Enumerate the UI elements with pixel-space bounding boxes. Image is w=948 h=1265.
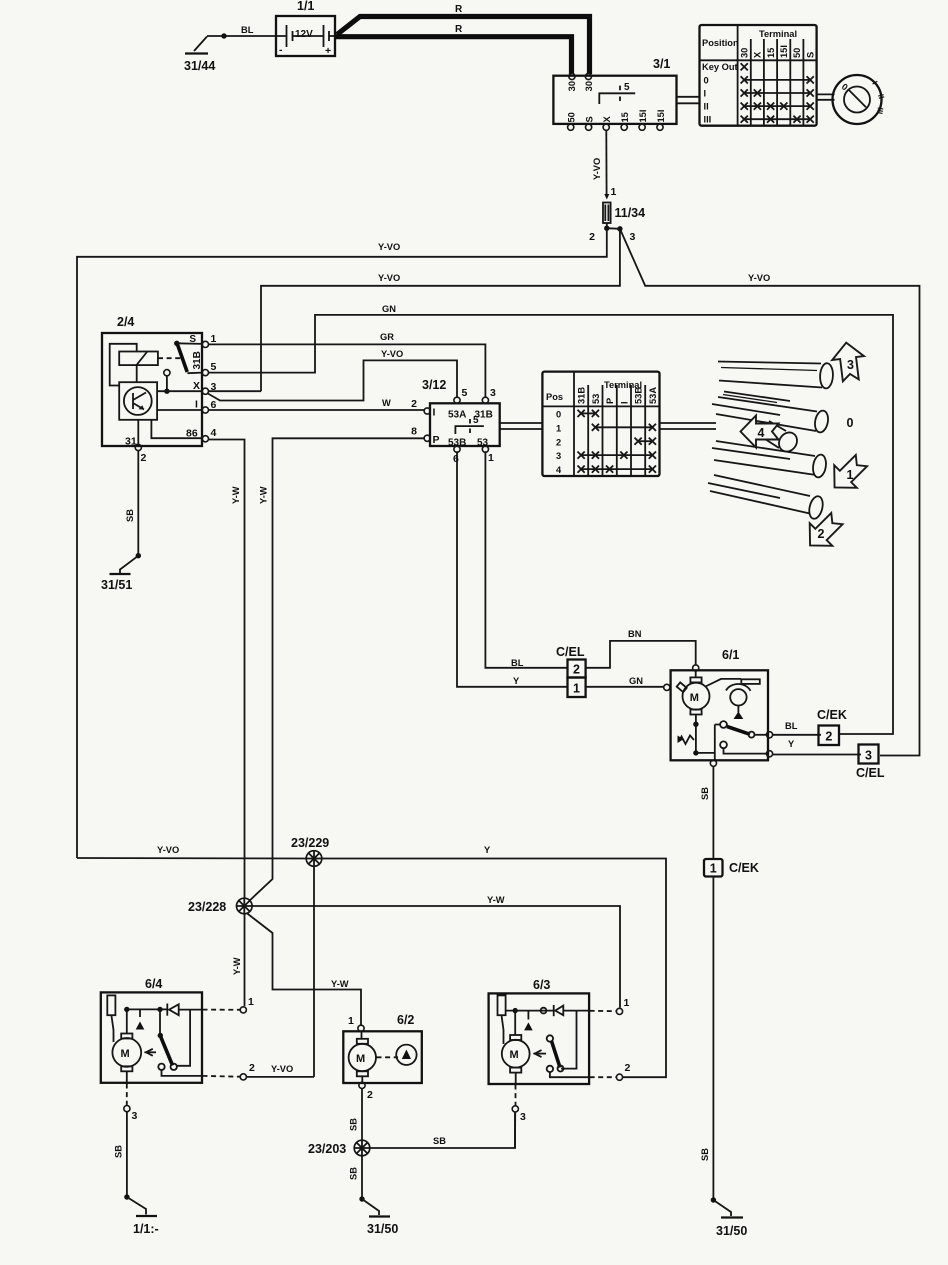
svg-text:4: 4	[211, 427, 217, 439]
svg-text:2/4: 2/4	[117, 315, 134, 329]
svg-text:1: 1	[348, 1015, 354, 1027]
svg-text:3: 3	[520, 1111, 526, 1123]
svg-text:2: 2	[589, 231, 595, 243]
svg-text:31/44: 31/44	[184, 59, 215, 73]
svg-text:Y-W: Y-W	[331, 979, 349, 989]
svg-text:2: 2	[249, 1062, 255, 1074]
svg-text:3/12: 3/12	[422, 378, 446, 392]
svg-text:X: X	[193, 380, 200, 392]
svg-text:C/EL: C/EL	[856, 766, 885, 780]
svg-text:3/1: 3/1	[653, 57, 670, 71]
svg-text:1: 1	[211, 333, 217, 345]
svg-text:Y-W: Y-W	[259, 486, 269, 504]
svg-text:Y: Y	[513, 676, 520, 686]
svg-text:BL: BL	[785, 721, 798, 731]
svg-text:M: M	[510, 1049, 519, 1061]
svg-text:6/4: 6/4	[145, 977, 162, 991]
svg-text:1: 1	[556, 423, 561, 433]
svg-text:II: II	[704, 102, 709, 112]
svg-text:1: 1	[248, 996, 254, 1008]
svg-text:1: 1	[573, 682, 580, 696]
svg-text:Y-VO: Y-VO	[157, 845, 179, 855]
svg-text:Y: Y	[788, 739, 795, 749]
svg-text:SB: SB	[433, 1136, 446, 1146]
svg-text:3: 3	[490, 387, 496, 399]
svg-text:SB: SB	[700, 787, 710, 800]
svg-text:4: 4	[556, 465, 562, 475]
svg-text:Y-VO: Y-VO	[592, 158, 602, 180]
svg-text:GN: GN	[382, 304, 396, 314]
svg-text:5: 5	[624, 82, 630, 93]
svg-text:P: P	[605, 398, 615, 404]
svg-text:BN: BN	[628, 629, 642, 639]
svg-text:2: 2	[141, 452, 147, 464]
svg-text:Y: Y	[484, 845, 491, 855]
svg-text:Y-VO: Y-VO	[378, 273, 400, 283]
svg-text:Y-VO: Y-VO	[748, 273, 770, 283]
svg-text:3: 3	[847, 358, 854, 372]
svg-text:+: +	[325, 45, 331, 57]
svg-text:S: S	[189, 334, 196, 345]
svg-text:86: 86	[186, 428, 198, 440]
svg-text:M: M	[356, 1053, 365, 1065]
svg-text:SB: SB	[114, 1145, 124, 1158]
svg-text:53A: 53A	[648, 387, 658, 404]
svg-text:P: P	[433, 434, 440, 446]
svg-text:1: 1	[624, 997, 630, 1009]
svg-text:53A: 53A	[448, 410, 466, 421]
svg-text:53B: 53B	[448, 438, 466, 449]
svg-text:Y-VO: Y-VO	[271, 1064, 293, 1074]
svg-text:5: 5	[462, 387, 468, 399]
svg-text:15I: 15I	[638, 110, 648, 123]
svg-text:Key Out: Key Out	[702, 62, 738, 72]
svg-text:50: 50	[792, 48, 802, 58]
svg-text:6: 6	[211, 399, 217, 411]
svg-text:11/34: 11/34	[615, 206, 646, 220]
svg-text:23/228: 23/228	[188, 900, 226, 914]
svg-text:2: 2	[367, 1089, 373, 1101]
svg-text:3: 3	[865, 749, 872, 763]
svg-text:I: I	[704, 89, 707, 99]
svg-text:5: 5	[473, 415, 479, 426]
svg-text:X: X	[753, 51, 763, 58]
svg-text:S: S	[805, 52, 815, 58]
svg-text:12V: 12V	[295, 29, 313, 40]
svg-text:Pos: Pos	[546, 392, 563, 402]
svg-text:23/229: 23/229	[291, 836, 329, 850]
svg-text:3: 3	[211, 381, 217, 393]
svg-text:30: 30	[584, 81, 594, 91]
svg-text:Y-W: Y-W	[232, 957, 242, 975]
svg-text:30: 30	[567, 81, 577, 91]
svg-text:31B: 31B	[577, 387, 587, 404]
svg-text:Position: Position	[702, 38, 739, 48]
svg-text:8: 8	[411, 426, 417, 438]
svg-text:R: R	[455, 24, 463, 35]
svg-text:BL: BL	[241, 25, 254, 35]
svg-text:31/50: 31/50	[716, 1224, 747, 1238]
svg-text:M: M	[121, 1048, 130, 1060]
svg-text:0: 0	[704, 75, 709, 85]
svg-text:6/1: 6/1	[722, 648, 739, 662]
svg-text:Y-W: Y-W	[231, 486, 241, 504]
svg-text:15I: 15I	[779, 45, 789, 58]
svg-text:2: 2	[818, 527, 825, 541]
svg-text:6/2: 6/2	[397, 1013, 414, 1027]
svg-text:SB: SB	[700, 1148, 710, 1161]
svg-text:Y-VO: Y-VO	[381, 349, 403, 359]
svg-text:C/EL: C/EL	[556, 645, 585, 659]
svg-text:31/51: 31/51	[101, 578, 132, 592]
svg-text:31/50: 31/50	[367, 1222, 398, 1236]
svg-text:3: 3	[132, 1110, 138, 1122]
svg-text:I: I	[195, 399, 198, 411]
svg-text:53: 53	[477, 438, 489, 449]
svg-text:15I: 15I	[656, 110, 666, 123]
svg-text:SB: SB	[349, 1118, 359, 1131]
svg-text:Terminal: Terminal	[759, 29, 797, 39]
svg-text:C/EK: C/EK	[817, 708, 847, 722]
svg-text:6/3: 6/3	[533, 978, 550, 992]
svg-text:SB: SB	[349, 1167, 359, 1180]
svg-text:M: M	[690, 692, 699, 704]
svg-text:S: S	[584, 116, 594, 122]
svg-text:1/1:-: 1/1:-	[133, 1222, 159, 1236]
svg-text:23/203: 23/203	[308, 1142, 346, 1156]
svg-text:GR: GR	[380, 332, 394, 342]
svg-text:31B: 31B	[192, 351, 203, 369]
svg-text:I: I	[433, 407, 436, 419]
svg-text:15: 15	[620, 112, 630, 122]
svg-text:0: 0	[556, 410, 561, 420]
svg-text:SB: SB	[125, 509, 135, 522]
svg-text:4: 4	[758, 426, 765, 440]
svg-text:50: 50	[567, 112, 577, 122]
svg-text:6: 6	[453, 453, 459, 465]
svg-text:1: 1	[710, 862, 717, 876]
svg-text:3: 3	[630, 231, 636, 243]
svg-text:R: R	[455, 4, 463, 15]
svg-text:2: 2	[556, 437, 561, 447]
svg-text:2: 2	[573, 663, 580, 677]
svg-text:1: 1	[847, 468, 854, 482]
svg-text:53: 53	[591, 394, 601, 404]
svg-text:I: I	[619, 401, 629, 404]
svg-text:2: 2	[411, 398, 417, 410]
svg-text:GN: GN	[629, 676, 643, 686]
svg-text:1/1: 1/1	[297, 0, 314, 13]
svg-text:3: 3	[556, 451, 561, 461]
svg-text:30: 30	[740, 48, 750, 58]
svg-text:Y-VO: Y-VO	[378, 242, 400, 252]
svg-text:Y-W: Y-W	[487, 895, 505, 905]
svg-text:X: X	[602, 116, 612, 123]
svg-text:15: 15	[766, 48, 776, 58]
svg-text:5: 5	[211, 361, 217, 373]
svg-text:0: 0	[847, 416, 854, 430]
svg-text:2: 2	[625, 1062, 631, 1074]
svg-text:W: W	[382, 398, 391, 408]
svg-text:1: 1	[611, 186, 617, 198]
svg-text:C/EK: C/EK	[729, 861, 759, 875]
svg-text:1: 1	[488, 452, 494, 464]
svg-text:III: III	[704, 115, 712, 125]
svg-text:BL: BL	[511, 658, 524, 668]
svg-text:53B: 53B	[634, 387, 644, 404]
svg-text:-: -	[279, 44, 283, 56]
svg-text:2: 2	[825, 730, 832, 744]
